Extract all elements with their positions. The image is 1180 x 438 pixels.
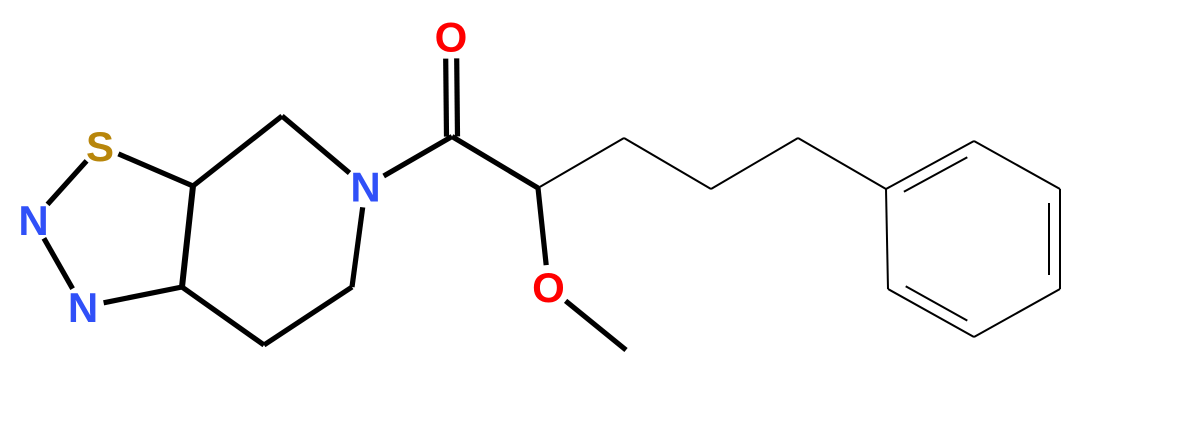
svg-text:O: O <box>435 14 468 61</box>
svg-text:S: S <box>86 123 114 170</box>
tetrahydropyridine bond C7a-C7 <box>193 116 282 186</box>
bond C(=O)-C(alpha) <box>452 137 538 189</box>
svg-text:N: N <box>350 164 380 211</box>
chain bond C(alpha)-CH2 <box>538 138 624 188</box>
thiadiazole bond S1-N2 <box>48 161 87 205</box>
benzene ring bond bottom to lower-left <box>888 289 974 337</box>
benzene inner double-bond line R3=R4 <box>1048 203 1050 275</box>
methoxy bond O-CH3 <box>566 301 626 350</box>
benzene ring bond lower-right to bottom <box>974 289 1060 337</box>
bond C(alpha)-O(ether) <box>538 188 546 265</box>
benzene ring bond lower-left to ipso <box>886 189 888 289</box>
benzene inner double-bond line R5=R6 <box>906 286 968 320</box>
benzene inner double-bond line R1=R2 <box>904 157 967 192</box>
chain bond CH2-CH2 (a) <box>624 138 711 189</box>
chain bond CH2-CH2 (b) <box>711 138 798 189</box>
tetrahydropyridine bond C7-N5 <box>282 116 350 173</box>
tetrahydropyridine bond C5-C3a <box>182 287 264 345</box>
benzene ring bond ipso to top <box>886 141 974 189</box>
svg-text:N: N <box>68 284 98 331</box>
thiadiazole bond N3-C3a <box>104 287 182 303</box>
amide bond N5-C(=O) <box>384 137 452 177</box>
thiadiazole bond C7a-S1 <box>118 154 193 186</box>
svg-text:O: O <box>532 264 565 311</box>
thiadiazole bond N2=N3 <box>44 238 73 288</box>
benzene ring bond upper-right to lower-right <box>1059 189 1061 289</box>
chain bond CH2-phenyl <box>798 138 886 189</box>
benzene ring bond top to upper-right <box>974 141 1060 189</box>
fused ring bond C3a=C7a <box>182 186 193 287</box>
tetrahydropyridine bond C6-C5 <box>264 287 352 345</box>
tetrahydropyridine bond N5-C6 <box>352 207 363 287</box>
carbonyl double bond C=O <box>454 58 460 136</box>
svg-text:N: N <box>18 197 48 244</box>
